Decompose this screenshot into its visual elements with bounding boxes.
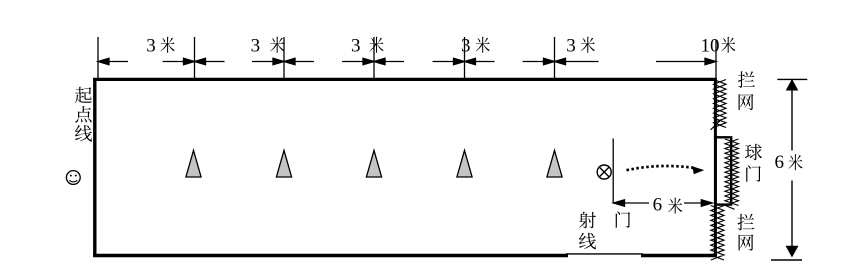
field bottom edge left thick segment	[93, 254, 568, 258]
dimension tick 4	[373, 37, 375, 79]
svg-text:10: 10	[701, 36, 720, 57]
field right edge	[714, 78, 717, 257]
6m horizontal dimension line	[614, 200, 713, 207]
top net label lan	[738, 71, 755, 87]
top net label wang	[739, 94, 754, 110]
dimension arrows span 6 (10 m)	[555, 61, 599, 63]
svg-text:3: 3	[251, 36, 261, 57]
label xian	[579, 233, 596, 250]
dimension tick 3	[283, 37, 285, 79]
svg-text:6: 6	[653, 195, 663, 216]
start line label: xian	[75, 125, 92, 142]
6m vertical dimension	[771, 79, 807, 260]
dimension arrows span 5 (3 m)	[465, 61, 495, 63]
dimension tick 6	[554, 37, 556, 79]
goal net zigzag	[725, 139, 739, 209]
svg-text:3: 3	[146, 36, 156, 57]
dimension tick 1	[97, 37, 99, 79]
dimension tick 7 (right end, 10m)	[715, 40, 717, 80]
label men (gate)	[616, 211, 631, 228]
svg-text:3: 3	[566, 36, 576, 57]
cone triangle 3	[366, 150, 381, 177]
top net tail stroke	[711, 119, 722, 130]
goal net tail stroke	[726, 206, 735, 210]
start line label: dian	[75, 106, 91, 122]
cone triangle 4	[457, 150, 472, 177]
svg-text:3: 3	[351, 36, 361, 57]
dimension arrows span 3 (3 m)	[284, 61, 314, 63]
label she	[579, 212, 596, 229]
goal label qiu	[745, 144, 762, 160]
dimension arrows span 2 (3 m)	[195, 61, 225, 63]
smiley face	[66, 171, 80, 185]
dimension tick 2	[194, 37, 196, 79]
field bottom edge right thick segment	[641, 254, 717, 258]
svg-text:3: 3	[461, 36, 471, 57]
dimension arrows span 4 (3 m)	[374, 61, 404, 63]
dimension arrows span 1 (3 m)	[98, 61, 128, 63]
top net zigzag	[711, 80, 726, 130]
field left edge (start line)	[93, 78, 96, 257]
cone triangle 2	[276, 150, 291, 177]
bottom net zigzag	[711, 206, 724, 261]
field bottom edge thin middle segment	[566, 253, 643, 255]
field top edge	[93, 78, 716, 81]
shooter mark (circle-x)	[597, 165, 611, 179]
dimension tick 5	[464, 37, 466, 79]
dotted shot arrow	[627, 166, 697, 170]
cone triangle 5	[547, 150, 562, 177]
start line label: qi	[75, 87, 92, 104]
bottom net label wang	[739, 234, 754, 250]
goal box	[716, 137, 732, 204]
shooting line (vertical)	[612, 139, 614, 204]
goal label men	[746, 165, 761, 182]
svg-text:6: 6	[775, 152, 785, 173]
bottom net label lan	[738, 214, 755, 230]
cone triangle 1	[186, 150, 201, 177]
